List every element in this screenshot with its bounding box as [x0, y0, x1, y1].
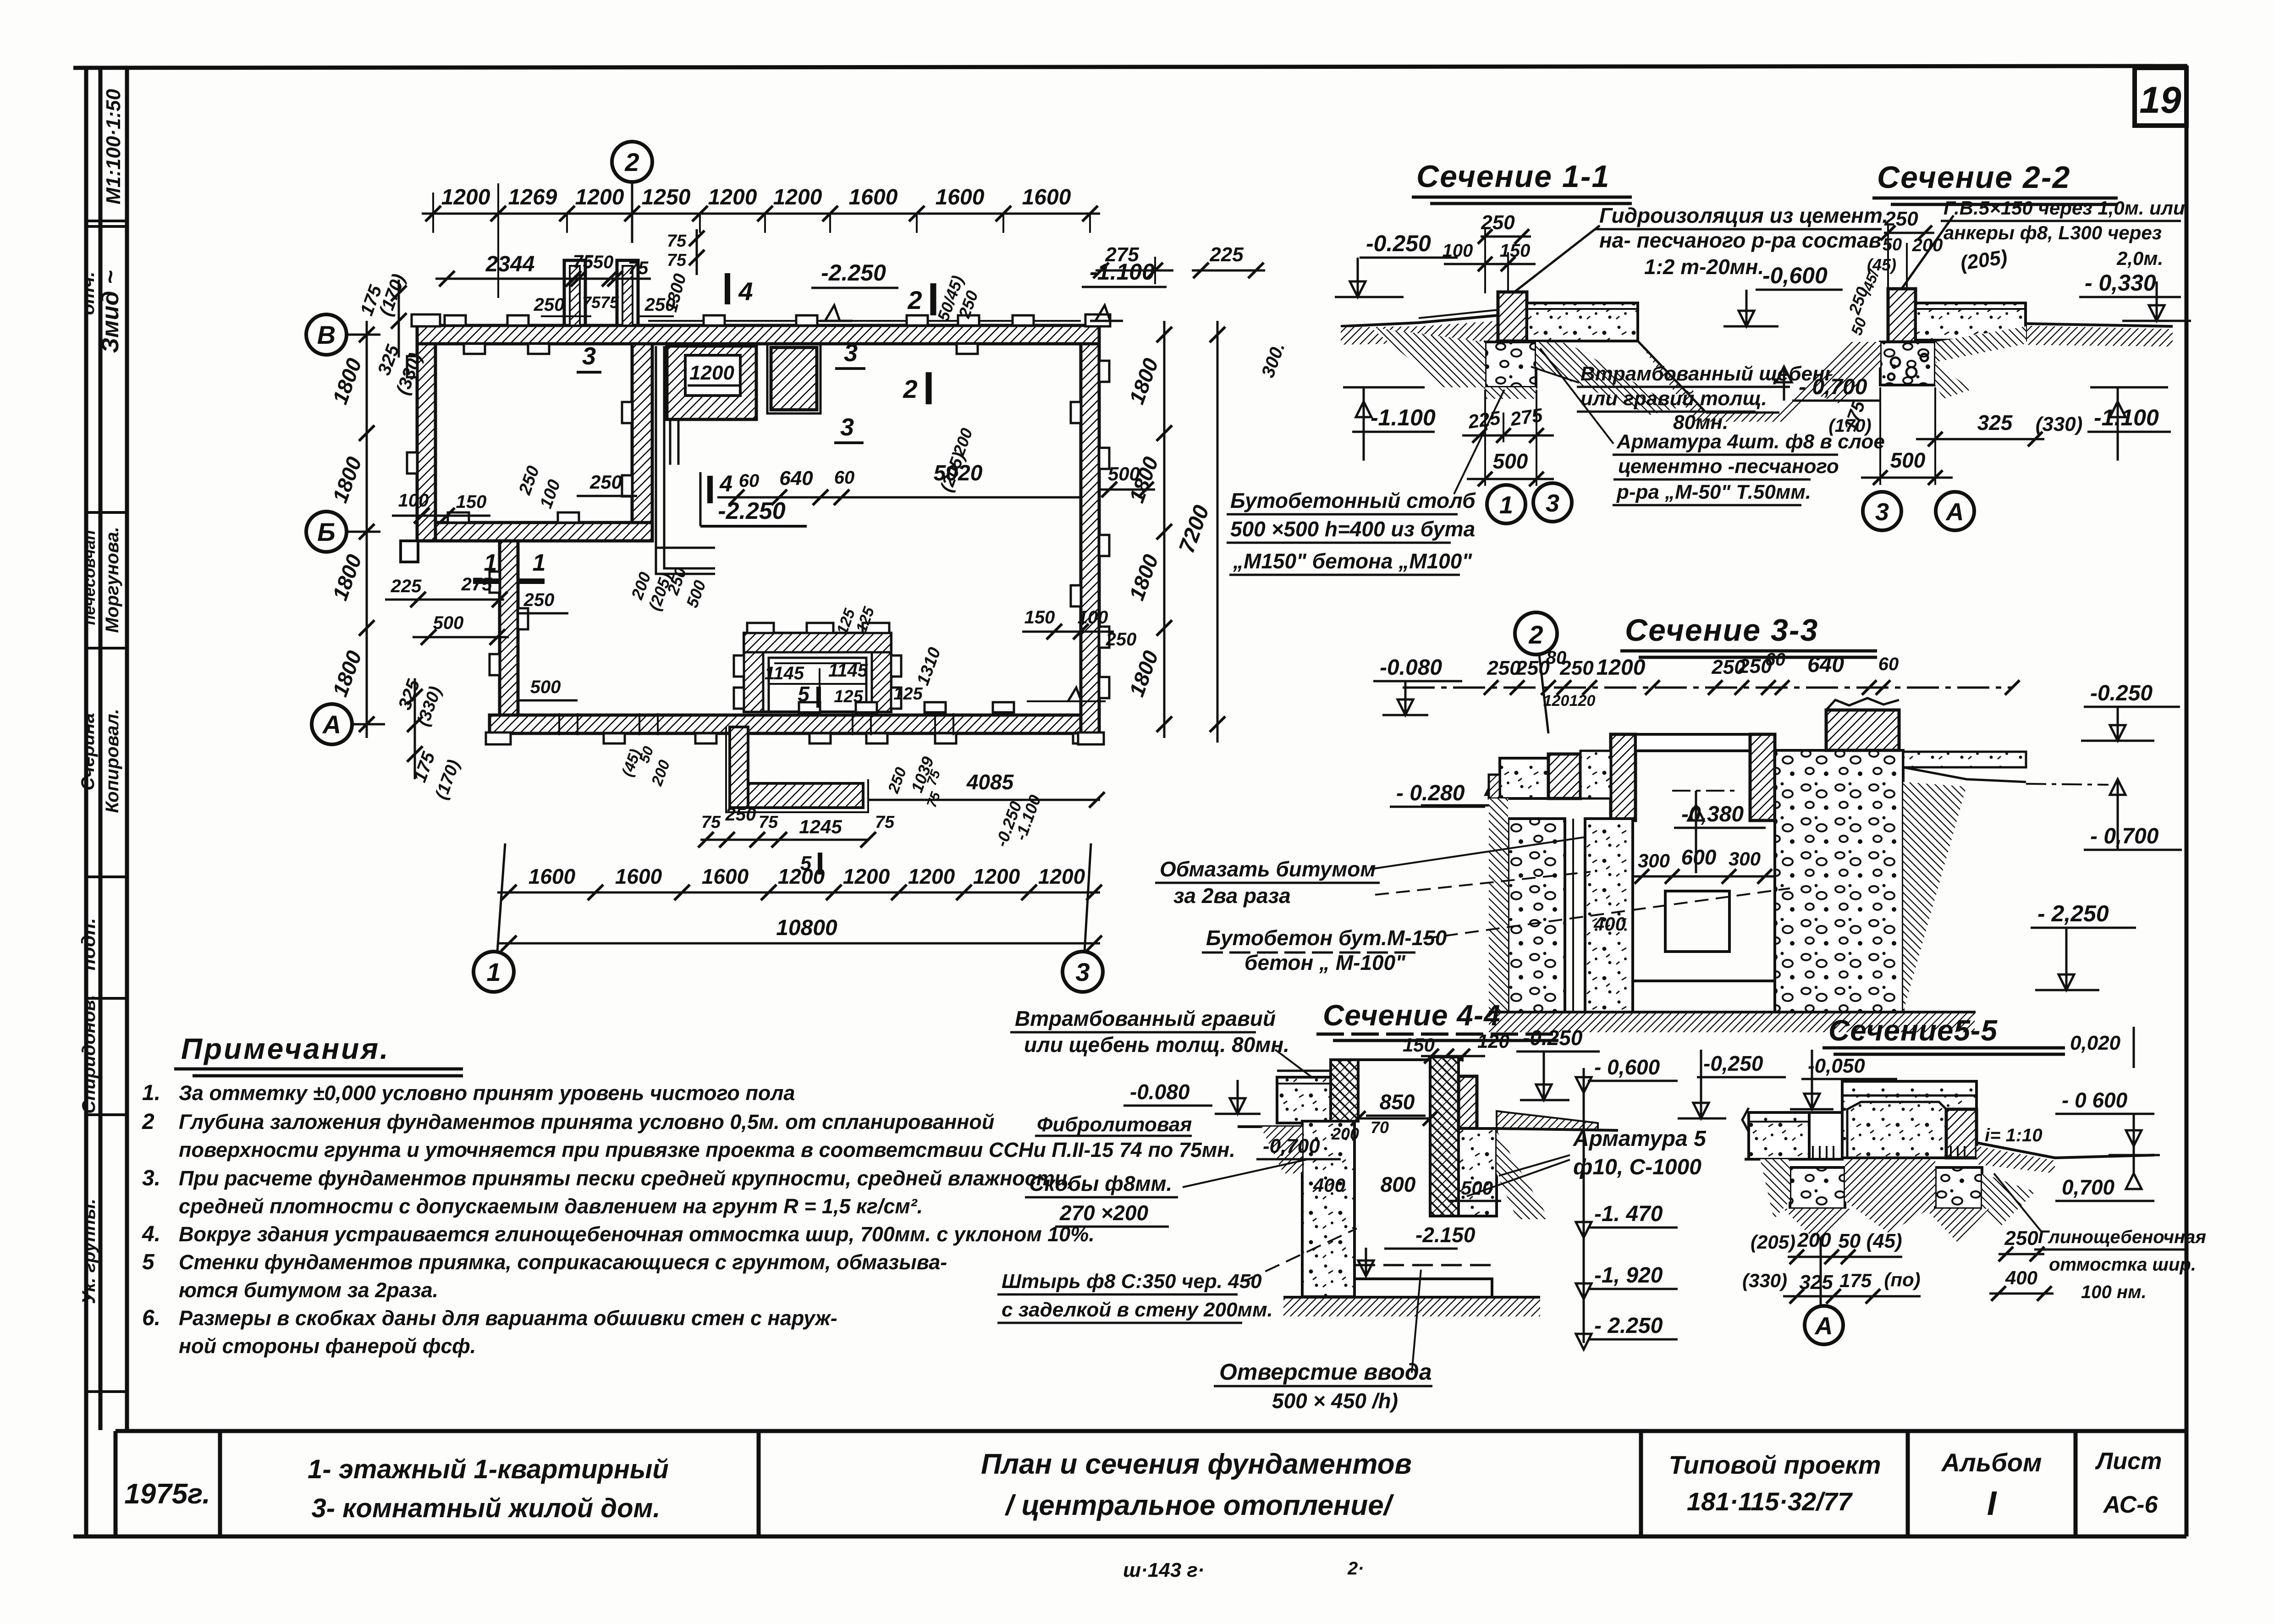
body: left floor slab	[1500, 758, 1548, 798]
wall: lower-left exterior (grid 1)	[500, 541, 518, 715]
svg-text:0,020: 0,020	[2070, 1032, 2121, 1054]
ground left	[1238, 1125, 1302, 1128]
svg-text:175: 175	[1839, 1270, 1872, 1291]
svg-text:При расчете фундаментов приня: При расчете фундаментов приняты пески ср…	[179, 1167, 1073, 1190]
dotted marks under right hatch	[1950, 1146, 1952, 1159]
svg-text:Копировал.: Копировал.	[102, 709, 122, 813]
otmostka band right	[1497, 1111, 1598, 1129]
svg-text:на- песчаного р-ра состав: на- песчаного р-ра состав	[1599, 228, 1882, 252]
svg-text:400: 400	[1313, 1174, 1345, 1196]
svg-text:3: 3	[582, 342, 596, 370]
svg-text:3: 3	[1546, 490, 1559, 517]
svg-text:Б: Б	[317, 517, 336, 546]
svg-text:120: 120	[1543, 692, 1569, 710]
svg-text:А: А	[1814, 1312, 1833, 1340]
svg-text:или гравий толщ.: или гравий толщ.	[1580, 387, 1767, 410]
svg-text:Сечение 4-4: Сечение 4-4	[1323, 999, 1501, 1032]
right rubble footing	[1459, 1129, 1497, 1216]
svg-text:Лист: Лист	[2095, 1448, 2162, 1475]
svg-text:275: 275	[1509, 404, 1544, 430]
svg-text:1600: 1600	[936, 185, 985, 209]
svg-text:-2.250: -2.250	[821, 260, 886, 286]
svg-text:ф10, С-1000: ф10, С-1000	[1573, 1155, 1701, 1179]
svg-text:Гидроизоляция из цемент.: Гидроизоляция из цемент.	[1599, 204, 1888, 227]
ground wedge left	[1489, 798, 1508, 1012]
svg-text:4085: 4085	[966, 770, 1014, 794]
svg-text:125: 125	[893, 684, 923, 704]
svg-text:анкеры ф8, L300 через: анкеры ф8, L300 через	[1944, 222, 2162, 243]
pit right wall (above)	[1750, 734, 1775, 820]
right level stack	[1583, 1068, 1585, 1343]
svg-text:4: 4	[719, 471, 732, 496]
svg-text:Глубина заложения фундаменто: Глубина заложения фундаментов принята ус…	[179, 1110, 994, 1134]
rubble columns below pit walls	[1508, 819, 1565, 1012]
ground line right	[1935, 321, 2173, 326]
svg-text:средней плотности с допуска: средней плотности с допускаемым давление…	[179, 1195, 923, 1218]
svg-text:(205): (205)	[1751, 1231, 1795, 1253]
svg-text:75: 75	[701, 813, 721, 832]
svg-text:1200: 1200	[1038, 864, 1085, 888]
pit left wall (above)	[1611, 734, 1635, 820]
svg-text:с заделкой в стену 200мм.: с заделкой в стену 200мм.	[1002, 1299, 1273, 1321]
wall block	[1498, 292, 1527, 341]
svg-text:-1.100: -1.100	[1371, 405, 1436, 430]
rubble pillar	[1880, 342, 1935, 385]
pier: stove foundation 2	[767, 344, 820, 413]
top dimension chain 2	[435, 278, 651, 280]
svg-text:250: 250	[523, 590, 555, 610]
svg-text:1: 1	[484, 550, 497, 576]
svg-text:1200: 1200	[778, 864, 825, 888]
right cross-hatched column	[1430, 1057, 1459, 1216]
svg-text:План и сечения фундаментов: План и сечения фундаментов	[981, 1448, 1412, 1480]
svg-text:100: 100	[1078, 607, 1108, 628]
svg-text:за 2ва раза: за 2ва раза	[1173, 884, 1291, 908]
svg-text:1200: 1200	[575, 185, 624, 209]
svg-text:М1:100·1:50: М1:100·1:50	[102, 89, 125, 204]
rubble pillar	[1485, 342, 1536, 387]
svg-text:„М150" бетона „М100": „М150" бетона „М100"	[1233, 549, 1472, 573]
svg-text:5: 5	[798, 682, 810, 706]
floor slab	[1916, 303, 2026, 340]
grid row circle V	[347, 334, 380, 336]
svg-text:3: 3	[1875, 498, 1889, 526]
svg-text:-0.080: -0.080	[1380, 655, 1442, 680]
svg-text:Моргунова.: Моргунова.	[102, 527, 122, 633]
svg-text:225: 225	[1466, 407, 1502, 433]
wall block	[1888, 289, 1916, 342]
svg-text:- 0,600: - 0,600	[1594, 1055, 1660, 1079]
svg-text:1:2 т-20мн.: 1:2 т-20мн.	[1644, 255, 1764, 279]
svg-text:75: 75	[759, 813, 778, 832]
svg-text:500 ×500 h=400 из бута: 500 ×500 h=400 из бута	[1230, 517, 1475, 541]
svg-text:500: 500	[1108, 463, 1140, 484]
grid column circle 2	[631, 182, 633, 243]
svg-text:I: I	[1987, 1484, 1997, 1522]
ground base hatch	[1489, 1012, 1975, 1032]
svg-text:Штырь ф8 С:350 чер. 450: Штырь ф8 С:350 чер. 450	[1002, 1270, 1262, 1293]
excavation right of pillar	[1935, 326, 2026, 362]
svg-text:600: 600	[1681, 845, 1717, 869]
svg-text:Ук. группы.: Ук. группы.	[79, 1199, 99, 1304]
svg-text:Типовой проект: Типовой проект	[1668, 1450, 1881, 1479]
svg-text:1200: 1200	[689, 362, 734, 384]
svg-text:1200: 1200	[973, 864, 1020, 888]
upper pier right	[1826, 710, 1899, 750]
svg-text:-2.250: -2.250	[718, 498, 786, 524]
svg-text:Сечение 1-1: Сечение 1-1	[1416, 159, 1610, 194]
svg-text:Вокруг здания устраивается: Вокруг здания устраивается глинощебеночн…	[179, 1222, 1095, 1246]
svg-text:1200: 1200	[843, 864, 890, 888]
sheet number box 19	[2135, 68, 2186, 126]
svg-text:50: 50	[1883, 235, 1902, 254]
svg-text:отмостка шир.: отмостка шир.	[2049, 1255, 2196, 1275]
svg-text:Глинощебеночная: Глинощебеночная	[2038, 1227, 2206, 1247]
svg-text:250: 250	[589, 471, 622, 493]
svg-text:0,700: 0,700	[2062, 1175, 2115, 1199]
svg-text:i= 1:10: i= 1:10	[1985, 1125, 2043, 1145]
svg-text:- 0,700: - 0,700	[1799, 375, 1867, 399]
svg-text:(170): (170)	[1828, 416, 1871, 436]
svg-text:1: 1	[1499, 491, 1513, 519]
svg-text:1600: 1600	[849, 185, 898, 209]
svg-text:100: 100	[1443, 241, 1473, 261]
svg-text:125: 125	[834, 687, 863, 706]
svg-text:1975г.: 1975г.	[124, 1478, 210, 1510]
svg-text:75: 75	[628, 258, 649, 278]
svg-text:1145: 1145	[828, 661, 868, 681]
svg-text:100 нм.: 100 нм.	[2081, 1282, 2147, 1302]
svg-text:отч.: отч.	[78, 272, 98, 315]
svg-text:275: 275	[461, 574, 492, 595]
body top line	[1331, 1058, 1463, 1061]
svg-text:75: 75	[875, 813, 895, 832]
svg-text:-0.080: -0.080	[1130, 1080, 1190, 1104]
svg-text:850: 850	[1380, 1090, 1415, 1114]
section 3-3	[1155, 612, 2182, 1032]
wall piers	[445, 315, 466, 325]
corridor thin walls (L-shape)	[656, 346, 715, 574]
svg-text:3: 3	[844, 339, 858, 367]
svg-text:70: 70	[1371, 1118, 1389, 1137]
svg-text:А: А	[1945, 498, 1964, 526]
svg-text:- 0,330: - 0,330	[2085, 270, 2156, 296]
svg-text:-1. 470: -1. 470	[1594, 1202, 1663, 1226]
svg-text:р-ра „М-50" Т.50мм.: р-ра „М-50" Т.50мм.	[1616, 481, 1811, 503]
svg-text:поверхности грунта и уточняе: поверхности грунта и уточняется при прив…	[179, 1138, 1235, 1162]
svg-text:3- комнатный жилой дом.: 3- комнатный жилой дом.	[311, 1493, 660, 1523]
svg-text:75: 75	[667, 231, 687, 251]
svg-text:или щебень толщ. 80мн.: или щебень толщ. 80мн.	[1024, 1033, 1289, 1057]
svg-text:2: 2	[624, 148, 639, 176]
grid row circle A	[352, 723, 385, 726]
svg-text:Обмазать битумом: Обмазать битумом	[1160, 857, 1376, 881]
svg-text:-0,250: -0,250	[1703, 1051, 1763, 1075]
foundation plan	[306, 142, 1289, 992]
section 5-5	[1678, 1014, 2206, 1344]
inlet duct below bottom wall	[730, 727, 748, 808]
svg-text:250: 250	[725, 804, 756, 825]
svg-text:1- этажный 1-квартирный: 1- этажный 1-квартирный	[308, 1454, 669, 1484]
svg-text:АС-6: АС-6	[2103, 1492, 2158, 1518]
section 4-4	[997, 999, 1707, 1413]
svg-text:- 0 600: - 0 600	[2062, 1088, 2128, 1112]
svg-text:2·: 2·	[1347, 1558, 1364, 1579]
svg-text:2: 2	[907, 286, 922, 314]
svg-text:/ центральное отопление/: / центральное отопление/	[1004, 1490, 1394, 1521]
svg-text:Отверстие ввода: Отверстие ввода	[1219, 1359, 1432, 1385]
svg-text:Змид ~: Змид ~	[97, 270, 124, 353]
svg-text:250: 250	[1884, 208, 1918, 230]
wall: bottom exterior (row A)	[490, 715, 1081, 733]
svg-text:75: 75	[667, 251, 687, 270]
svg-text:1: 1	[486, 958, 501, 986]
svg-text:270 ×200: 270 ×200	[1059, 1201, 1149, 1225]
svg-text:300: 300	[1638, 850, 1670, 871]
ground wedge right of mass	[1903, 782, 1966, 1012]
svg-text:Г.В.5×150 через 1,0м. или: Г.В.5×150 через 1,0м. или	[1944, 197, 2185, 219]
svg-text:500: 500	[433, 613, 464, 633]
grid circle 2 leader	[1515, 612, 1557, 655]
svg-text:цементно -песчаного: цементно -песчаного	[1618, 455, 1839, 478]
svg-text:Фибролитовая: Фибролитовая	[1037, 1113, 1192, 1136]
svg-text:200: 200	[1797, 1229, 1831, 1251]
circle A	[1820, 1238, 1822, 1306]
svg-text:60: 60	[1765, 650, 1786, 670]
leader armature	[1540, 348, 1613, 444]
left form strip cell dividers	[86, 221, 127, 1392]
svg-text:-0,050: -0,050	[1808, 1055, 1865, 1077]
svg-text:640: 640	[1807, 653, 1844, 677]
floor slab	[1527, 303, 1638, 341]
svg-text:275: 275	[1105, 243, 1139, 266]
trench slope left	[1815, 342, 1880, 403]
svg-text:-0,600: -0,600	[1762, 263, 1828, 288]
svg-text:-0,700: -0,700	[1263, 1135, 1320, 1157]
svg-text:- 2.250: - 2.250	[1594, 1314, 1663, 1338]
section 1-1	[1227, 159, 1888, 575]
svg-text:-0.250: -0.250	[1366, 231, 1431, 256]
svg-text:-0.250: -0.250	[1523, 1026, 1583, 1050]
svg-text:- 0.280: - 0.280	[1396, 781, 1465, 805]
svg-text:250: 250	[2004, 1227, 2038, 1250]
excavation hatch left of pillar	[1371, 327, 1485, 387]
right upper hatched pier	[1459, 1076, 1477, 1129]
svg-text:ются битумом за 2раза.: ются битумом за 2раза.	[179, 1278, 438, 1302]
svg-text:подп.: подп.	[77, 918, 99, 971]
svg-text:640: 640	[779, 467, 813, 490]
svg-text:1145: 1145	[765, 663, 804, 683]
section mark 2 top	[931, 283, 936, 315]
svg-text:Счерина: Счерина	[78, 713, 98, 790]
right dimension chain 1800x4	[1163, 321, 1166, 738]
svg-text:1245: 1245	[799, 816, 842, 837]
svg-text:2: 2	[142, 1110, 154, 1134]
svg-text:Сечение 3-3: Сечение 3-3	[1625, 613, 1818, 648]
svg-text:Сечение 2-2: Сечение 2-2	[1877, 160, 2070, 195]
main cross-hatched wall column	[1331, 1060, 1358, 1121]
svg-text:60: 60	[739, 471, 760, 491]
svg-text:10800: 10800	[776, 916, 837, 940]
svg-text:2,0м.: 2,0м.	[2116, 248, 2163, 269]
big rubble mass right	[1775, 750, 1903, 1012]
left form strip rotated labels	[77, 89, 125, 1304]
svg-text:2344: 2344	[485, 252, 535, 276]
svg-text:Альбом: Альбом	[1941, 1448, 2042, 1477]
svg-text:Стенки фундаментов приямка,: Стенки фундаментов приямка, соприкасающи…	[179, 1250, 947, 1274]
grid row circle B	[347, 531, 380, 533]
left dimension chain 1800x4	[366, 321, 368, 738]
svg-text:1600: 1600	[615, 864, 662, 888]
note stolb	[1454, 390, 1504, 494]
svg-text:1200: 1200	[773, 185, 822, 209]
pit interior + duct box	[1665, 891, 1729, 952]
svg-text:1: 1	[533, 550, 546, 576]
title block	[116, 1431, 2186, 1536]
svg-text:60: 60	[834, 468, 855, 488]
svg-text:181·115·32/77: 181·115·32/77	[1687, 1487, 1853, 1516]
svg-text:19: 19	[2139, 79, 2181, 121]
leader anchors text	[1902, 215, 1954, 288]
shaft: cellar entry 1200	[667, 346, 756, 419]
svg-text:(по): (по)	[1884, 1269, 1920, 1290]
wall: top exterior (row B)	[417, 325, 1099, 344]
svg-text:6.: 6.	[142, 1306, 160, 1330]
grid column circle 1	[497, 843, 505, 952]
svg-text:Спиридонов.: Спиридонов.	[79, 995, 99, 1114]
section 2-2	[1723, 160, 2191, 530]
svg-text:ш·143 г·: ш·143 г·	[1123, 1559, 1205, 1581]
svg-text:150: 150	[1403, 1034, 1435, 1056]
svg-text:1200: 1200	[441, 185, 490, 209]
right floor strip	[1903, 752, 2026, 767]
svg-text:ной стороны фанерой: ной стороны фанерой фсф.	[179, 1334, 476, 1358]
svg-text:1250: 1250	[642, 185, 691, 209]
svg-text:325: 325	[1977, 411, 2013, 435]
svg-text:800: 800	[1381, 1173, 1416, 1196]
svg-text:500 × 450 /h): 500 × 450 /h)	[1272, 1389, 1398, 1413]
svg-text:1200: 1200	[1597, 655, 1646, 680]
svg-text:1.: 1.	[142, 1081, 160, 1105]
svg-text:120: 120	[1477, 1030, 1509, 1052]
bottom small chain	[700, 839, 868, 841]
svg-text:1600: 1600	[1022, 185, 1071, 209]
leader gravel	[1531, 367, 1579, 383]
svg-text:В: В	[317, 320, 336, 349]
right hatched part	[1946, 1109, 1977, 1158]
svg-text:бетон „ М-100": бетон „ М-100"	[1244, 951, 1406, 974]
svg-text:250: 250	[1515, 657, 1550, 679]
svg-text:4.: 4.	[142, 1222, 160, 1246]
chimney foundations on top wall	[564, 260, 585, 325]
ground line left	[1341, 315, 1498, 326]
svg-text:1200: 1200	[708, 185, 757, 209]
svg-text:- 2,250: - 2,250	[2037, 901, 2109, 926]
trench slope right	[1536, 342, 1678, 415]
svg-text:60: 60	[1878, 654, 1899, 674]
wall: upper-left exterior	[417, 344, 435, 541]
svg-text:Бутобетонный столб: Бутобетонный столб	[1230, 489, 1476, 512]
svg-text:250: 250	[1559, 657, 1594, 679]
svg-text:225: 225	[1209, 243, 1244, 266]
svg-text:5020: 5020	[934, 461, 983, 485]
svg-text:250: 250	[1106, 629, 1137, 650]
svg-text:200: 200	[1331, 1124, 1359, 1143]
svg-text:1600: 1600	[702, 864, 749, 888]
bottom chain 1600/1200	[497, 892, 1100, 894]
svg-text:500: 500	[1890, 448, 1926, 472]
svg-text:300: 300	[1729, 848, 1761, 870]
left deep rubble column	[1302, 1121, 1354, 1297]
svg-text:75: 75	[600, 293, 619, 312]
svg-text:2: 2	[1528, 620, 1543, 649]
svg-text:50 (45): 50 (45)	[1838, 1230, 1902, 1252]
svg-text:3: 3	[1075, 958, 1090, 986]
wall: row B interior (room bottom)	[435, 523, 652, 541]
svg-text:75: 75	[582, 293, 601, 312]
svg-text:1600: 1600	[529, 864, 576, 888]
svg-text:1200: 1200	[908, 864, 955, 888]
section mark 2 lower	[926, 372, 932, 404]
vents in bottom wall	[558, 713, 560, 735]
wall: right exterior (grid 3)	[1081, 344, 1099, 733]
ground hatch	[1977, 1146, 2055, 1173]
svg-text:2: 2	[903, 374, 917, 403]
footings	[1790, 1167, 1845, 1209]
svg-text:5: 5	[142, 1250, 155, 1274]
svg-text:За отметку ±0,000 условно прин: За отметку ±0,000 условно принят уровень…	[179, 1081, 795, 1105]
svg-text:-0.250: -0.250	[2090, 681, 2153, 705]
svg-text:400: 400	[1593, 913, 1626, 935]
right total 7200	[1217, 321, 1219, 743]
svg-text:-2.150: -2.150	[1415, 1223, 1476, 1247]
svg-text:550: 550	[583, 252, 614, 272]
svg-text:4: 4	[738, 277, 753, 306]
svg-text:Втрамбованный щебень: Втрамбованный щебень	[1580, 363, 1837, 385]
svg-text:печесовчап: печесовчап	[80, 530, 99, 625]
svg-text:Размеры в скобках даны для: Размеры в скобках даны для варианта обши…	[179, 1306, 837, 1330]
svg-text:100: 100	[398, 490, 429, 511]
svg-text:Втрамбованный гравий: Втрамбованный гравий	[1015, 1007, 1276, 1030]
notch at B junction	[401, 541, 418, 562]
svg-text:(330): (330)	[1742, 1270, 1787, 1291]
notes block	[142, 1007, 1312, 1358]
svg-text:500: 500	[530, 677, 561, 697]
left slab	[1749, 1112, 1809, 1159]
body: big block	[1842, 1081, 1977, 1158]
top dim chain (dash-dot)	[1403, 687, 2012, 689]
section mark 4 top	[725, 273, 730, 304]
svg-text:225: 225	[391, 576, 422, 596]
middle column	[1809, 1112, 1842, 1159]
svg-text:Бутобетон бут.М-150: Бутобетон бут.М-150	[1206, 926, 1447, 950]
left slab	[1277, 1077, 1331, 1123]
svg-text:3.: 3.	[142, 1166, 160, 1190]
svg-text:120: 120	[1569, 692, 1596, 710]
svg-text:Примечания.: Примечания.	[181, 1032, 390, 1065]
svg-text:Арматура 5: Арматура 5	[1573, 1127, 1707, 1151]
svg-text:А: А	[322, 710, 341, 739]
svg-text:150: 150	[456, 492, 487, 512]
svg-text:Сечение5-5: Сечение5-5	[1828, 1014, 1998, 1047]
svg-text:1269: 1269	[508, 185, 557, 209]
pit (priyamok) thin walls	[744, 633, 891, 712]
svg-text:- 0,700: - 0,700	[2090, 824, 2159, 848]
grid circles 1,3	[1487, 485, 1525, 523]
svg-text:150: 150	[1024, 607, 1055, 628]
grid circles 3,A	[1863, 492, 1901, 530]
svg-text:-1, 920: -1, 920	[1594, 1263, 1663, 1288]
